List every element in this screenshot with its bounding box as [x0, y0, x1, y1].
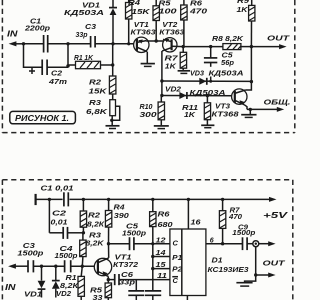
svg-text:R6: R6 [158, 212, 170, 219]
capacitor C7 shunt [128, 280, 144, 300]
resistor R2 15K vertical [89, 76, 116, 96]
svg-text:300: 300 [140, 112, 157, 119]
wire pin 15 [151, 267, 170, 270]
svg-text:+5V: +5V [263, 211, 288, 220]
svg-text:C: C [173, 239, 179, 248]
node R4 junction [127, 42, 130, 45]
svg-text:R1 1K: R1 1K [74, 55, 94, 62]
svg-text:R3: R3 [89, 100, 101, 107]
svg-text:R6: R6 [190, 1, 202, 8]
svg-text:ОБЩ.: ОБЩ. [264, 97, 291, 106]
node collector / C5 [107, 242, 110, 245]
node B (C2 branch right) [66, 42, 69, 45]
svg-text:C2: C2 [52, 211, 66, 218]
svg-text:15K: 15K [132, 9, 151, 16]
svg-text:470: 470 [228, 214, 242, 221]
diode VD1 KD503A [64, 0, 117, 44]
svg-text:R1: R1 [66, 275, 77, 282]
capacitor C8 shunt [145, 291, 161, 300]
diode VD3 KD503A wire [160, 79, 253, 83]
capacitor C9 1500p [232, 224, 256, 250]
resistor R1 8,2K label [60, 275, 79, 290]
svg-text:РИСУНОК 1.: РИСУНОК 1. [15, 114, 69, 123]
svg-text:33p: 33p [76, 32, 89, 39]
diode VD3 KD503A [190, 70, 244, 84]
wire pin 14 [151, 255, 170, 258]
IC D1 KS193IE3 [170, 229, 206, 296]
svg-text:15: 15 [156, 262, 166, 269]
svg-text:C6: C6 [121, 272, 133, 279]
svg-text:1K: 1K [165, 64, 177, 71]
svg-text:R10: R10 [140, 104, 153, 111]
svg-text:VD2: VD2 [56, 291, 71, 298]
node R2 on rail [82, 198, 85, 201]
node R6/C5 crossing [151, 242, 154, 245]
supply rail +5V with left terminal [36, 194, 288, 220]
svg-text:0,01: 0,01 [51, 220, 68, 227]
common terminal OBShch arrow [247, 97, 291, 112]
diode VD1 [24, 266, 45, 298]
node R3/R1 base junction [81, 265, 84, 268]
node VD1 junction [40, 265, 43, 268]
node R1/R2 junction [111, 44, 114, 76]
svg-text:C3: C3 [23, 243, 35, 250]
resistor R3 8,2K [80, 232, 105, 266]
svg-text:R8 8,2K: R8 8,2K [212, 36, 244, 43]
node R7 on rail [221, 198, 224, 201]
input terminal IN [7, 29, 24, 47]
ground at output [236, 275, 255, 286]
capacitor C3 1500p [17, 243, 44, 272]
svg-text:16: 16 [191, 219, 201, 226]
figure caption box RISUNOK 1 [10, 111, 76, 123]
wire OUT node down to VD3 wire [250, 47, 252, 82]
svg-text:15K: 15K [89, 89, 108, 96]
node A (C2 branch left) [22, 42, 25, 45]
ground under R7 [178, 71, 190, 74]
resistor R5 33 [90, 280, 112, 300]
wire IN node to C1 [24, 43, 44, 45]
svg-text:P2: P2 [172, 264, 183, 273]
svg-text:14: 14 [156, 250, 166, 257]
svg-text:КТ372: КТ372 [113, 262, 138, 269]
svg-text:12: 12 [156, 238, 166, 245]
svg-text:1500p: 1500p [55, 253, 79, 260]
svg-text:R3: R3 [89, 232, 101, 239]
node R2/R3/C2 junction [82, 231, 85, 234]
resistor R4 390 [105, 199, 129, 243]
svg-text:КД503А: КД503А [209, 71, 244, 78]
diode VD2 KD503A [165, 87, 226, 99]
svg-text:VT1: VT1 [134, 22, 149, 29]
svg-text:680: 680 [158, 222, 173, 229]
svg-text:R5: R5 [90, 288, 102, 295]
diode VD2 [52, 266, 71, 298]
output arrow lower [256, 273, 276, 278]
svg-text:VD1: VD1 [24, 292, 42, 299]
capacitor C5 56p [204, 47, 235, 81]
resistor R6 470 [181, 0, 207, 47]
node VD2 junction [54, 265, 57, 268]
svg-text:VD2: VD2 [165, 87, 181, 94]
capacitor C4 1500p [55, 246, 79, 273]
svg-text:1500p: 1500p [122, 230, 147, 237]
svg-text:8,2К: 8,2К [60, 283, 79, 290]
svg-text:R9: R9 [237, 0, 249, 5]
resistor R1 8,2K [78, 266, 84, 300]
svg-text:C1 0,01: C1 0,01 [41, 184, 74, 193]
svg-text:2200p: 2200p [24, 25, 51, 32]
svg-text:IN: IN [7, 29, 18, 39]
svg-text:VT1: VT1 [115, 255, 132, 262]
node VT2 collector / R6 / R7 junction [182, 45, 185, 48]
transistor VT2 KT363 [159, 22, 184, 52]
svg-text:КТ368: КТ368 [212, 111, 239, 118]
wire VT1 collector up [108, 244, 110, 258]
transistor VT1 KT363 [131, 22, 156, 53]
svg-text:100: 100 [159, 9, 177, 16]
figure 1 dashed frame [2, 0, 294, 133]
svg-text:КД503А: КД503А [64, 10, 104, 17]
svg-text:33p: 33p [119, 279, 136, 286]
capacitor C2 47m electrolytic branch [24, 44, 70, 86]
node R4 on rail [107, 198, 110, 201]
ground at VT3 emitter [241, 109, 256, 117]
output arrow upper [259, 241, 276, 246]
resistor R6 680 [150, 199, 173, 290]
svg-text:VT3: VT3 [215, 104, 230, 111]
svg-text:P1: P1 [172, 253, 182, 262]
wire VT1 emitter node [107, 276, 110, 281]
svg-text:КТ363: КТ363 [159, 29, 184, 36]
svg-text:8,2К: 8,2К [87, 221, 105, 228]
ground under R10 [154, 126, 169, 129]
svg-text:C2: C2 [51, 71, 62, 78]
svg-text:C: C [173, 276, 179, 285]
svg-text:D1: D1 [212, 258, 223, 265]
capacitor C3 33p [76, 24, 97, 48]
wire pin 8 stub [186, 296, 188, 300]
svg-text:КТ363: КТ363 [131, 29, 156, 36]
svg-text:OUT: OUT [267, 33, 291, 42]
node R6 on rail [151, 198, 154, 201]
svg-text:8,2K: 8,2K [86, 240, 105, 247]
resistor R11 1K [182, 96, 211, 125]
capacitor C6 33p [108, 272, 170, 286]
resistor R1 1K horizontal [68, 55, 113, 69]
ground under R11 [201, 125, 214, 127]
svg-text:R2: R2 [88, 213, 100, 220]
svg-text:R5: R5 [159, 1, 171, 8]
wire C4 to VT1 base [71, 265, 98, 267]
node C2 branch on rail [48, 198, 51, 201]
svg-text:56p: 56p [221, 60, 235, 67]
capacitor C1 2200p [24, 17, 51, 53]
resistor R4 15K [126, 0, 151, 44]
transistor VT3 KT368 [212, 82, 252, 119]
wire circle down to lower arrow [254, 247, 257, 277]
svg-text:R2: R2 [89, 80, 101, 87]
resistor R10 300 [140, 96, 165, 126]
svg-text:VD3: VD3 [190, 70, 204, 77]
svg-text:КС193ИЕ3: КС193ИЕ3 [208, 267, 249, 274]
svg-text:OUT: OUT [263, 258, 287, 267]
wire C3 to VT1 base [95, 43, 137, 45]
svg-text:R4: R4 [128, 0, 140, 7]
wire VT1 emitter to VT2 base [146, 40, 171, 42]
svg-text:1K: 1K [237, 7, 249, 14]
resistor R7 470 [219, 199, 242, 243]
svg-text:6,8K: 6,8K [86, 109, 108, 116]
wire pin 6 to C9 [206, 242, 242, 245]
ground under R3 [106, 126, 120, 129]
svg-text:IN: IN [5, 282, 16, 292]
figure 2 dashed frame [2, 180, 292, 300]
capacitor C1 0,01 [41, 184, 74, 207]
svg-text:1K: 1K [184, 112, 196, 119]
output terminal circle [253, 241, 259, 247]
svg-text:VT2: VT2 [162, 22, 177, 29]
wire VT2 collector down to diode chain [161, 51, 163, 81]
wire VT2 node to OUT [183, 46, 223, 48]
resistor R3 6,8K trimmer [86, 94, 120, 126]
svg-text:1500p: 1500p [232, 230, 256, 237]
node VD1 junction [111, 42, 114, 45]
label D1 KS193IE3 [208, 258, 249, 275]
svg-text:11: 11 [157, 273, 167, 280]
svg-text:VD1: VD1 [82, 3, 100, 10]
resistor R2 8,2K [80, 199, 105, 232]
svg-text:C5: C5 [222, 53, 233, 60]
svg-text:C4: C4 [60, 246, 73, 253]
ground under VT1 collector [141, 52, 155, 67]
resistor R8 8,2K horizontal [212, 36, 251, 50]
transistor VT1 KT372 [94, 255, 138, 277]
svg-text:33: 33 [93, 295, 103, 300]
svg-text:R4: R4 [114, 205, 125, 212]
svg-text:390: 390 [114, 213, 129, 220]
node pin16 on rail [187, 198, 190, 201]
svg-text:47m: 47m [48, 79, 67, 86]
svg-text:R11: R11 [182, 105, 198, 112]
resistor R9 1K [237, 0, 255, 47]
output arrow OUT [250, 33, 291, 49]
svg-text:1500p: 1500p [17, 250, 44, 257]
capacitor C2 0,01 branch [49, 199, 83, 239]
svg-text:C1: C1 [30, 17, 41, 26]
node C5 junction [209, 45, 212, 48]
svg-text:R7: R7 [165, 55, 180, 62]
wire C1 to C3 [48, 43, 91, 45]
svg-text:470: 470 [189, 9, 208, 16]
diode VD2 KD503A wire [160, 81, 235, 97]
wire pin 16 [187, 199, 189, 229]
capacitor C5 1500p coupling [109, 223, 170, 250]
svg-text:C3: C3 [85, 24, 96, 31]
input terminal IN fig2 [5, 264, 28, 292]
resistor R7 1K [165, 47, 187, 71]
wire C3 to C4 [34, 265, 65, 267]
node R5 junction [155, 39, 158, 42]
svg-text:C5: C5 [126, 223, 138, 230]
resistor R5 100 [153, 0, 177, 41]
